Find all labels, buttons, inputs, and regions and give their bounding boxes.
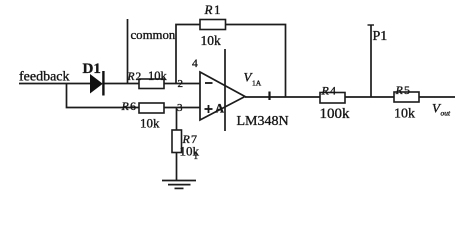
svg-text:2: 2	[136, 71, 142, 83]
svg-text:A: A	[215, 102, 224, 116]
wire diode-to-R2	[104, 83, 140, 85]
svg-text:R: R	[204, 2, 213, 17]
wire R7 bottom lead	[176, 153, 178, 181]
svg-text:P1: P1	[373, 29, 388, 44]
wire R7 top lead	[176, 108, 178, 131]
wire P1 stub	[370, 25, 372, 97]
wire R4-to-R5	[345, 96, 394, 98]
svg-text:R: R	[321, 84, 330, 98]
wire R6-to-opamp plus	[164, 107, 200, 109]
svg-text:1: 1	[194, 151, 199, 161]
resistor R2	[139, 79, 164, 89]
svg-text:1A: 1A	[252, 79, 262, 88]
op-amp plus sign	[205, 105, 213, 113]
diode D1	[90, 71, 103, 96]
svg-text:D1: D1	[83, 61, 101, 77]
resistor R6	[139, 103, 164, 113]
svg-text:2: 2	[178, 78, 184, 90]
wire common stub	[127, 19, 129, 84]
resistor R7	[172, 130, 182, 153]
svg-text:1: 1	[214, 2, 221, 17]
svg-text:10k: 10k	[201, 33, 222, 48]
ground	[162, 181, 196, 189]
svg-text:10k: 10k	[140, 116, 160, 131]
wire opamp power rail	[224, 49, 226, 131]
svg-text:R: R	[127, 71, 135, 83]
wire R2-to-opamp minus	[164, 83, 200, 85]
wire left drop	[67, 84, 140, 108]
svg-text:R: R	[395, 83, 404, 97]
svg-text:3: 3	[177, 102, 183, 114]
svg-text:4: 4	[192, 58, 198, 70]
svg-text:R: R	[121, 99, 130, 113]
svg-text:out: out	[441, 109, 452, 118]
resistor R5	[394, 92, 419, 102]
svg-text:5: 5	[404, 83, 410, 97]
svg-text:6: 6	[130, 99, 136, 113]
wire feedback input	[19, 83, 91, 85]
wire R1 left leg	[176, 25, 200, 84]
svg-text:10k: 10k	[148, 69, 168, 83]
svg-text:feedback: feedback	[19, 70, 70, 85]
svg-text:LM348N: LM348N	[237, 114, 289, 129]
svg-text:100k: 100k	[320, 106, 351, 122]
wire R1 right leg	[226, 25, 286, 98]
wire opamp output	[245, 96, 320, 98]
svg-text:10k: 10k	[394, 107, 415, 122]
pin 1 tick on output	[268, 92, 270, 101]
wire R5-to-Vout	[419, 96, 455, 98]
op-amp minus sign	[205, 82, 213, 84]
resistor R1	[200, 20, 226, 30]
resistor R4	[320, 93, 345, 104]
svg-text:common: common	[131, 28, 176, 42]
P1 top tick	[368, 24, 375, 26]
op-amp U1 LM348N triangle	[200, 72, 245, 120]
svg-text:4: 4	[330, 84, 336, 98]
